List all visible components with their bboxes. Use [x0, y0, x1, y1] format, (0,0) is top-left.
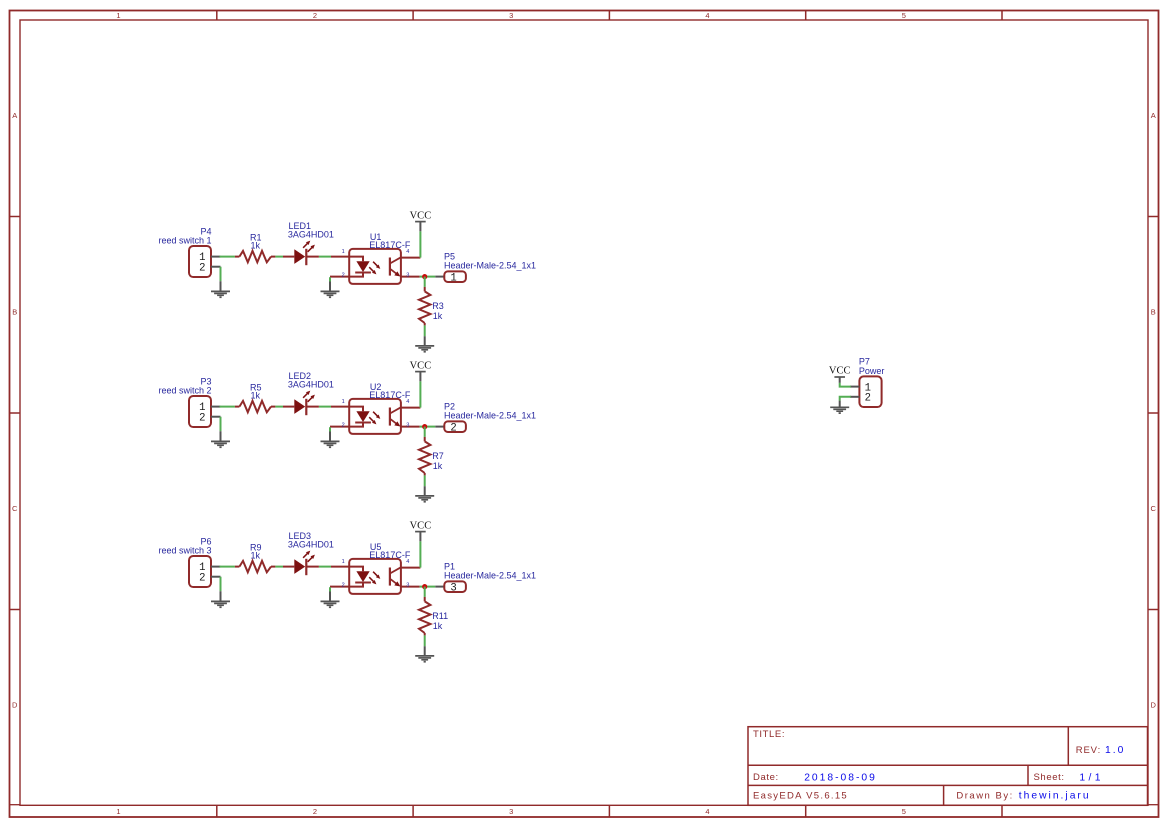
- svg-text:3: 3: [406, 272, 409, 278]
- ground under R3: [415, 346, 434, 352]
- ground under P6: [211, 601, 230, 607]
- svg-text:2: 2: [342, 422, 345, 428]
- ground under P7: [830, 407, 849, 413]
- wire R3 to ground: [424, 325, 426, 336]
- svg-text:R7: R7: [432, 451, 444, 461]
- frame tick right: [1148, 609, 1159, 611]
- svg-text:D: D: [12, 701, 18, 710]
- wire U5.3 to P1: [420, 586, 436, 588]
- svg-text:3: 3: [509, 807, 513, 816]
- svg-text:EasyEDA V5.6.15: EasyEDA V5.6.15: [753, 790, 848, 801]
- junction node: [422, 584, 427, 589]
- resistor R7 1k: [419, 437, 430, 476]
- frame tick bottom: [608, 805, 610, 817]
- optocoupler U2 EL817C-F: [321, 399, 421, 447]
- svg-text:2: 2: [865, 393, 871, 405]
- wire U2.4 to VCC: [419, 381, 421, 407]
- svg-text:EL817C-F: EL817C-F: [369, 240, 411, 250]
- left band bottom closure: [10, 804, 21, 806]
- svg-text:REV:: REV:: [1076, 745, 1101, 756]
- wire P3.2 to ground: [220, 417, 222, 432]
- LED LED2 3AG4HD01: [283, 391, 319, 416]
- svg-text:1: 1: [116, 807, 120, 816]
- connector P4 (reed switch 1): [189, 246, 221, 277]
- svg-text:3AG4HD01: 3AG4HD01: [288, 229, 334, 239]
- wire P7.2 to ground: [840, 397, 851, 401]
- svg-text:1k: 1k: [251, 391, 261, 401]
- svg-text:1.0: 1.0: [1105, 745, 1125, 756]
- svg-text:1k: 1k: [433, 621, 443, 631]
- wire R5 to LED2: [275, 406, 283, 408]
- svg-text:B: B: [12, 308, 17, 317]
- ground under R11: [415, 656, 434, 662]
- VCC flag P7: [829, 366, 851, 377]
- svg-text:2: 2: [313, 807, 317, 816]
- frame tick top: [412, 11, 414, 21]
- ground under P4: [211, 291, 230, 297]
- svg-text:C: C: [12, 504, 18, 513]
- wire R1 to LED1: [275, 256, 283, 258]
- wire P4.1 to R1: [220, 256, 235, 258]
- frame tick right: [1148, 216, 1159, 218]
- svg-text:Drawn By:: Drawn By:: [956, 790, 1013, 801]
- frame tick left: [10, 412, 21, 414]
- svg-text:2: 2: [313, 11, 317, 20]
- LED LED3 3AG4HD01: [283, 551, 319, 576]
- svg-text:2: 2: [450, 423, 456, 435]
- svg-text:1: 1: [450, 273, 456, 285]
- svg-text:P7: P7: [859, 356, 870, 366]
- svg-text:3: 3: [450, 583, 456, 595]
- frame tick bottom: [216, 805, 218, 817]
- svg-text:2: 2: [342, 272, 345, 278]
- wire P6.2 to ground: [220, 577, 222, 592]
- junction node: [422, 424, 427, 429]
- svg-text:4: 4: [406, 559, 409, 565]
- svg-text:R11: R11: [432, 611, 448, 621]
- svg-text:3: 3: [406, 422, 409, 428]
- svg-text:1: 1: [342, 559, 345, 565]
- svg-text:Header-Male-2.54_1x1: Header-Male-2.54_1x1: [444, 571, 536, 581]
- wire P4.2 to ground: [220, 267, 222, 282]
- header P2 Header-Male-2.54_1x1: [444, 421, 466, 434]
- wire R7 to ground: [424, 475, 426, 486]
- wire R11 to ground: [424, 635, 426, 646]
- svg-text:2: 2: [199, 572, 205, 584]
- wire P6.1 to R9: [220, 566, 235, 568]
- svg-text:3: 3: [509, 11, 513, 20]
- ground under R7: [415, 496, 434, 502]
- VCC flag: [410, 210, 432, 221]
- frame tick top: [608, 11, 610, 21]
- svg-text:5: 5: [902, 807, 906, 816]
- frame tick top: [805, 11, 807, 21]
- svg-text:reed switch 1: reed switch 1: [158, 236, 211, 246]
- svg-text:Header-Male-2.54_1x1: Header-Male-2.54_1x1: [444, 261, 536, 271]
- svg-text:R3: R3: [432, 301, 444, 311]
- frame tick top: [1001, 11, 1003, 21]
- frame tick bottom: [1001, 805, 1003, 817]
- wire P7.1 to VCC: [840, 383, 851, 387]
- LED LED1 3AG4HD01: [283, 241, 319, 266]
- frame tick bottom: [412, 805, 414, 817]
- wire U1.4 to VCC: [419, 231, 421, 257]
- frame tick bottom: [805, 805, 807, 817]
- svg-text:Header-Male-2.54_1x1: Header-Male-2.54_1x1: [444, 411, 536, 421]
- svg-text:2018-08-09: 2018-08-09: [804, 772, 877, 783]
- svg-text:4: 4: [406, 399, 409, 405]
- svg-text:reed switch 2: reed switch 2: [158, 386, 211, 396]
- header P5 Header-Male-2.54_1x1: [444, 271, 466, 284]
- svg-text:2: 2: [342, 582, 345, 588]
- svg-text:1k: 1k: [251, 241, 261, 251]
- svg-text:5: 5: [902, 11, 906, 20]
- resistor R3 1k: [419, 287, 430, 326]
- svg-text:1: 1: [116, 11, 120, 20]
- svg-text:EL817C-F: EL817C-F: [369, 550, 411, 560]
- frame tick right: [1148, 412, 1159, 414]
- frame tick top: [216, 11, 218, 21]
- right band bottom closure: [1148, 804, 1159, 806]
- svg-text:C: C: [1150, 504, 1156, 513]
- svg-text:D: D: [1150, 701, 1156, 710]
- svg-text:thewin.jaru: thewin.jaru: [1019, 791, 1091, 802]
- title block: [748, 727, 1148, 806]
- wire node to R7: [424, 427, 426, 437]
- frame tick left: [10, 609, 21, 611]
- svg-text:2: 2: [199, 412, 205, 424]
- svg-text:1: 1: [342, 399, 345, 405]
- VCC flag: [410, 360, 432, 371]
- svg-text:3AG4HD01: 3AG4HD01: [288, 539, 334, 549]
- svg-text:1/1: 1/1: [1079, 772, 1104, 783]
- svg-text:4: 4: [705, 11, 709, 20]
- wire LED1 to U1: [319, 256, 331, 258]
- connector P3 (reed switch 2): [189, 396, 221, 427]
- svg-text:Power: Power: [859, 366, 885, 376]
- svg-text:1k: 1k: [433, 461, 443, 471]
- svg-text:3AG4HD01: 3AG4HD01: [288, 379, 334, 389]
- wire LED3 to U5: [319, 566, 331, 568]
- wire U5.4 to VCC: [419, 541, 421, 567]
- connector P7 (Power): [850, 376, 882, 407]
- svg-text:3: 3: [406, 582, 409, 588]
- svg-text:reed switch 3: reed switch 3: [158, 546, 211, 556]
- frame tick left: [10, 216, 21, 218]
- svg-text:1k: 1k: [251, 551, 261, 561]
- ground under P3: [211, 441, 230, 447]
- header P1 Header-Male-2.54_1x1: [444, 581, 466, 594]
- connector P6 (reed switch 3): [189, 556, 221, 587]
- svg-text:A: A: [12, 111, 17, 120]
- resistor R9 1k: [235, 561, 276, 572]
- resistor R5 1k: [235, 401, 276, 412]
- svg-text:B: B: [1151, 308, 1156, 317]
- wire U2.3 to P2: [420, 426, 436, 428]
- svg-text:Sheet:: Sheet:: [1034, 772, 1065, 783]
- svg-text:A: A: [1151, 111, 1156, 120]
- junction node: [422, 274, 427, 279]
- optocoupler U1 EL817C-F: [321, 249, 421, 297]
- svg-text:4: 4: [705, 807, 709, 816]
- wire node to R3: [424, 277, 426, 287]
- svg-text:4: 4: [406, 249, 409, 255]
- wire U1.3 to P5: [420, 276, 436, 278]
- resistor R1 1k: [235, 251, 276, 262]
- svg-text:EL817C-F: EL817C-F: [369, 390, 411, 400]
- svg-text:1k: 1k: [433, 311, 443, 321]
- wire R9 to LED3: [275, 566, 283, 568]
- VCC flag: [410, 520, 432, 531]
- svg-text:Date:: Date:: [753, 772, 779, 783]
- optocoupler U5 EL817C-F: [321, 559, 421, 607]
- svg-text:2: 2: [199, 262, 205, 274]
- svg-text:1: 1: [342, 249, 345, 255]
- resistor R11 1k: [419, 597, 430, 636]
- wire P3.1 to R5: [220, 406, 235, 408]
- wire node to R11: [424, 587, 426, 597]
- wire LED2 to U2: [319, 406, 331, 408]
- svg-text:TITLE:: TITLE:: [753, 729, 785, 740]
